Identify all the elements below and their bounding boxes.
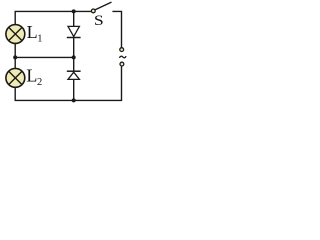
svg-text:S: S [94, 11, 104, 28]
svg-text:L: L [26, 66, 37, 86]
svg-text:1: 1 [37, 34, 42, 45]
svg-text:L: L [27, 22, 38, 42]
svg-text:2: 2 [37, 77, 42, 88]
